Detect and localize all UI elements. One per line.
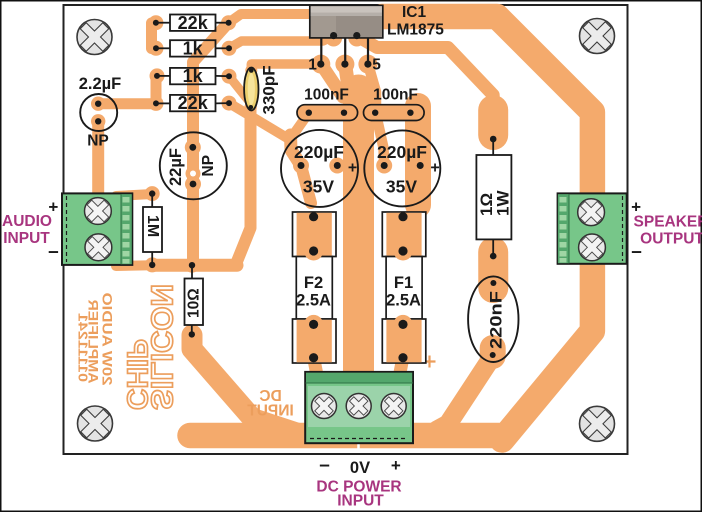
svg-text:1k: 1k xyxy=(183,39,204,59)
svg-text:1M: 1M xyxy=(144,215,161,237)
PCB board outline xyxy=(64,5,628,454)
pads 220uF left xyxy=(293,158,309,174)
svg-text:+: + xyxy=(348,160,357,177)
svg-text:35V: 35V xyxy=(386,177,417,197)
capacitor 2.2uF NP xyxy=(79,75,122,150)
holes 220nF xyxy=(490,280,496,286)
wire 330pF top pad to IC pin1 xyxy=(251,64,320,67)
mounting hole bottom-left xyxy=(73,401,117,445)
wire fuse F2 bottom clip to DC input xyxy=(314,357,318,378)
pads 2.2uF xyxy=(91,97,105,111)
resistor R2 1k xyxy=(156,39,229,59)
svg-text:–: – xyxy=(319,455,330,476)
wire 100nF left pad to V- junction xyxy=(291,113,309,138)
svg-text:AUDIO: AUDIO xyxy=(2,213,52,230)
svg-text:F2: F2 xyxy=(304,274,323,292)
wire 220uF left pad down to fuse F2 top clip xyxy=(301,166,311,204)
wire 22k R1 right pad to IC top band xyxy=(229,14,330,23)
capacitor 220nF xyxy=(468,276,518,362)
resistor 10 ohm xyxy=(185,265,204,335)
terminal block audio input xyxy=(62,193,132,265)
holes fuse clips xyxy=(309,212,318,221)
pads 1M xyxy=(145,186,160,201)
pads IC pins 2 4 xyxy=(325,30,342,47)
pads 22uF xyxy=(185,139,201,155)
wire 100nF C4 left pad to 220uF right cap left pad xyxy=(376,114,384,166)
pads resistor R3 1k xyxy=(150,68,165,83)
svg-text:F1: F1 xyxy=(394,274,413,292)
wire V- junction down to 220uF left pad xyxy=(291,135,302,166)
wire bottom power band behind DC input xyxy=(190,423,499,449)
wire left pads link R3-R4 xyxy=(151,76,162,104)
mounting hole top-left xyxy=(72,15,116,59)
capacitor 22uF NP xyxy=(160,132,227,199)
holes 330pF xyxy=(249,68,254,73)
svg-text:22µF: 22µF xyxy=(167,148,185,186)
holes IC pins xyxy=(317,61,324,68)
wire audio input - to 1M bottom pad xyxy=(116,260,152,271)
capacitor 100nF right xyxy=(364,87,425,121)
svg-text:OUTPUT: OUTPUT xyxy=(640,231,702,248)
mounting hole bottom-right xyxy=(575,402,619,446)
wire audio input + to 1M top pad xyxy=(116,194,152,196)
svg-text:1W: 1W xyxy=(494,190,513,216)
svg-text:LM1875: LM1875 xyxy=(387,22,444,39)
wire hairpin from ground band up to 330pF bottom xyxy=(236,107,251,264)
spare hole 22uF xyxy=(190,171,196,177)
resistor R4 22k xyxy=(156,93,229,113)
svg-text:INPUT: INPUT xyxy=(337,493,384,510)
wire IC pin5 to 100nF C4 left pad xyxy=(368,64,376,113)
holes 220uF xyxy=(298,162,305,169)
IC body xyxy=(310,5,383,38)
svg-text:IC1: IC1 xyxy=(402,4,427,21)
wire left sweep from 10 ohm bottom to DC input xyxy=(192,335,298,434)
svg-text:+: + xyxy=(430,160,439,177)
svg-text:20W AUDIO: 20W AUDIO xyxy=(100,292,116,385)
wire central 0V band from IC pin3 down to DC input xyxy=(343,90,374,378)
capacitor 330pF xyxy=(244,65,278,114)
svg-text:1k: 1k xyxy=(183,66,204,86)
wire 1 ohm bottom to 220nF top xyxy=(478,252,508,288)
wire big output trace from IC right edge around right side to bottom xyxy=(382,17,592,441)
wire IC pin1 diagonal into central band xyxy=(321,64,343,97)
pads 220uF right xyxy=(376,158,392,174)
pads resistor R4 22k xyxy=(149,96,164,111)
fuse F1 xyxy=(382,212,426,363)
IC pin wires xyxy=(320,38,322,64)
svg-text:220µF: 220µF xyxy=(294,142,344,162)
svg-text:22k: 22k xyxy=(178,13,209,33)
svg-text:10Ω: 10Ω xyxy=(186,288,203,318)
svg-text:AMPLIFIER: AMPLIFIER xyxy=(86,300,102,384)
pads 220nF xyxy=(485,275,501,291)
wire R4 right pad diagonal to V- junction xyxy=(229,103,291,140)
holes 22uF xyxy=(189,144,196,151)
terminal block DC input xyxy=(305,372,413,443)
resistor 1 ohm 1W xyxy=(476,139,512,256)
holes 100nF xyxy=(306,110,312,116)
wire left pads link R1-R2 xyxy=(146,23,157,49)
svg-text:2.2µF: 2.2µF xyxy=(79,75,122,93)
svg-text:22k: 22k xyxy=(178,93,209,113)
capacitor 220uF 35V left xyxy=(281,130,358,207)
svg-text:100nF: 100nF xyxy=(304,87,349,104)
wire fuse F1 bottom clip to DC input xyxy=(399,357,403,378)
svg-text:1: 1 xyxy=(308,57,317,74)
pads resistor R2 1k xyxy=(149,41,164,56)
holes resistors R1-R4 xyxy=(153,20,159,26)
pads 1 ohm xyxy=(485,131,501,147)
resistor R3 1k xyxy=(157,66,229,86)
svg-text:INPUT: INPUT xyxy=(247,403,294,420)
slit in bottom band xyxy=(357,423,360,449)
wire ground band 1M bottom to 10ohm top and hairpin xyxy=(152,259,237,272)
wire 220nF bottom diagonal down to DC input + xyxy=(437,355,493,430)
svg-text:INPUT: INPUT xyxy=(3,230,50,247)
svg-text:0V: 0V xyxy=(350,459,370,477)
svg-text:SPEAKER: SPEAKER xyxy=(634,214,702,231)
pads resistor R1 22k xyxy=(148,15,163,30)
holes 1M xyxy=(149,190,155,196)
holes 1 ohm xyxy=(490,136,497,143)
wire R3 right pad to 330pF bottom pad xyxy=(229,76,251,103)
wire R2 right pad to IC pin2 xyxy=(229,36,334,48)
svg-text:220µF: 220µF xyxy=(377,142,427,162)
wire feedback: R1 right pad diagonally behind resistors down to 22uF and 10ohm top xyxy=(193,23,229,265)
capacitor 220uF 35V right xyxy=(364,130,440,206)
wire 220nF bottom blob xyxy=(480,348,506,356)
wire IC pin3 down into central band xyxy=(345,64,350,97)
svg-text:+: + xyxy=(391,456,401,475)
svg-text:220nF: 220nF xyxy=(488,291,506,349)
wire 2.2uF top pad to R4 left pad xyxy=(98,98,156,109)
resistor R1 22k xyxy=(156,13,229,33)
svg-text:330pF: 330pF xyxy=(260,65,279,114)
pads IC pins 1 3 5 xyxy=(311,55,330,74)
capacitor 100nF left xyxy=(297,87,358,121)
holes 2.2uF xyxy=(95,101,101,107)
wire IC pin4 to 1 ohm resistor top xyxy=(357,36,493,139)
resistor 1M xyxy=(143,194,162,265)
terminal block speaker output xyxy=(558,193,627,264)
svg-text:CHIP: CHIP xyxy=(121,339,153,410)
svg-text:2.5A: 2.5A xyxy=(386,292,421,310)
mounting hole top-right xyxy=(575,14,619,58)
fuse F2 xyxy=(293,212,337,363)
svg-text:100nF: 100nF xyxy=(373,87,418,104)
holes 10 ohm xyxy=(189,262,195,268)
copper fiducial plus mark xyxy=(424,356,436,368)
pads 10 ohm xyxy=(185,258,200,273)
svg-text:35V: 35V xyxy=(303,177,334,197)
wire 1 ohm top fat stub xyxy=(478,110,508,135)
IC pin2 pin4 holes xyxy=(330,32,337,39)
svg-text:5: 5 xyxy=(372,57,381,74)
pads 330pF xyxy=(245,65,257,77)
svg-text:2.5A: 2.5A xyxy=(296,292,331,310)
svg-text:NP: NP xyxy=(200,155,217,177)
wire V+ band 100nF C4 right pad down through 220uF right pad to F1 xyxy=(405,106,431,205)
wire 2.2uF bottom pad down to audio input xyxy=(92,121,104,200)
svg-text:NP: NP xyxy=(87,133,109,150)
